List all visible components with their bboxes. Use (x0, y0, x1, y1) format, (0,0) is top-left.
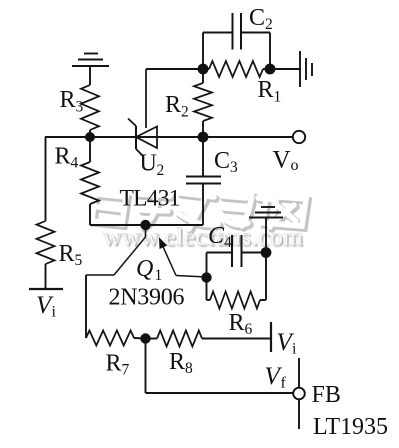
watermark www.elecfans.com (103, 222, 305, 253)
resistor R7 (86, 331, 134, 346)
svg-text:5: 5 (75, 252, 83, 269)
svg-text:i: i (52, 304, 57, 321)
svg-text:R: R (55, 144, 71, 170)
svg-text:1: 1 (155, 267, 163, 284)
svg-text:o: o (291, 157, 299, 174)
svg-text:R: R (165, 92, 181, 118)
svg-text:C: C (249, 5, 265, 31)
FB pin stub down (298, 400, 300, 430)
node junction dot (R7/R8/FB) (140, 333, 150, 343)
svg-text:LT1935: LT1935 (313, 414, 388, 440)
svg-text:2: 2 (181, 104, 189, 121)
main top wire y=69 (146, 68, 209, 70)
svg-text:C: C (208, 223, 225, 249)
svg-text:2: 2 (157, 162, 165, 179)
svg-text:R: R (106, 351, 122, 377)
transistor Q2: Q1 2N3906 symbol (86, 225, 207, 277)
node B junction dot (R2 bottom / C3 top / Vo) (198, 132, 209, 143)
svg-text:R: R (258, 77, 274, 103)
svg-text:f: f (281, 375, 287, 392)
node junction dot (R1 right / C2 right) (265, 64, 276, 75)
wire R3 to node A (89, 130, 91, 137)
svg-text:4: 4 (71, 155, 79, 172)
svg-text:R: R (169, 349, 185, 375)
resistor R4 (89, 137, 91, 162)
svg-text:V: V (273, 147, 291, 174)
capacitor C3 (186, 137, 221, 225)
svg-text:1: 1 (274, 89, 282, 106)
capacitor C4 / resistor R6 parallel loop (207, 218, 267, 300)
svg-text:C: C (214, 148, 230, 174)
svg-text:R: R (59, 241, 75, 267)
op-amp U1: TL431 shunt regulator U2 symbol (128, 69, 157, 156)
wire to FB pin (146, 392, 294, 394)
resistor R8 (146, 338, 158, 340)
resistor R5 (37, 221, 55, 264)
wire node to C4/R6 left (Q1 emitter lead junction) (201, 272, 211, 282)
wire R8 to Vi bar (202, 338, 271, 340)
svg-text:R: R (60, 87, 76, 113)
Q1 emitter arrowhead (160, 239, 167, 249)
ground (middle, above C4) (249, 207, 283, 218)
Vi terminal bar (bottom-left) (29, 288, 63, 290)
wire Q1 collector down to R7 (85, 275, 87, 338)
main horizontal wire y=137 (node A row, through TL431 to Vo) (45, 136, 293, 138)
svg-text:3: 3 (230, 159, 238, 176)
svg-text:TL431: TL431 (120, 186, 181, 212)
node junction dot (R1 left / R2 top) (198, 64, 209, 75)
wire R5 to Vi bar (45, 264, 47, 289)
output terminal Vo circle (293, 131, 305, 143)
FB pin stub up (298, 358, 300, 388)
node A junction dot (85, 132, 95, 142)
svg-text:2N3906: 2N3906 (109, 285, 185, 311)
resistor R3 (81, 85, 99, 130)
resistor R1 (209, 61, 263, 77)
TL431 anode wire y=225 (90, 224, 203, 226)
FB pin circle (293, 388, 305, 400)
svg-text:8: 8 (185, 360, 193, 377)
wire left column down to R5 (45, 137, 47, 221)
ground (top-left, above R3) (72, 54, 109, 86)
Vi terminal bar (right) (270, 322, 272, 352)
capacitor C2 branch (203, 13, 270, 69)
svg-text:U: U (140, 151, 157, 177)
node junction dot (C4 right / ground stem) (261, 247, 272, 258)
svg-text:www.elecfans.com: www.elecfans.com (103, 222, 303, 251)
svg-text:R: R (229, 310, 245, 336)
wire R1 to ground (263, 68, 300, 70)
svg-text:Q: Q (136, 256, 153, 282)
resistor R2 (202, 69, 204, 83)
svg-text:4: 4 (224, 234, 232, 251)
resistor R6 (210, 292, 260, 309)
svg-text:2: 2 (265, 16, 273, 33)
svg-text:7: 7 (122, 362, 130, 379)
svg-text:FB: FB (312, 382, 341, 408)
svg-text:3: 3 (76, 99, 84, 116)
svg-text:6: 6 (245, 321, 253, 338)
node (Q1 base) junction dot (140, 220, 150, 230)
svg-text:i: i (292, 341, 297, 358)
ground (top-right, rotated) (300, 51, 312, 87)
wire FB node: down from R7/R8 junction (145, 339, 147, 394)
